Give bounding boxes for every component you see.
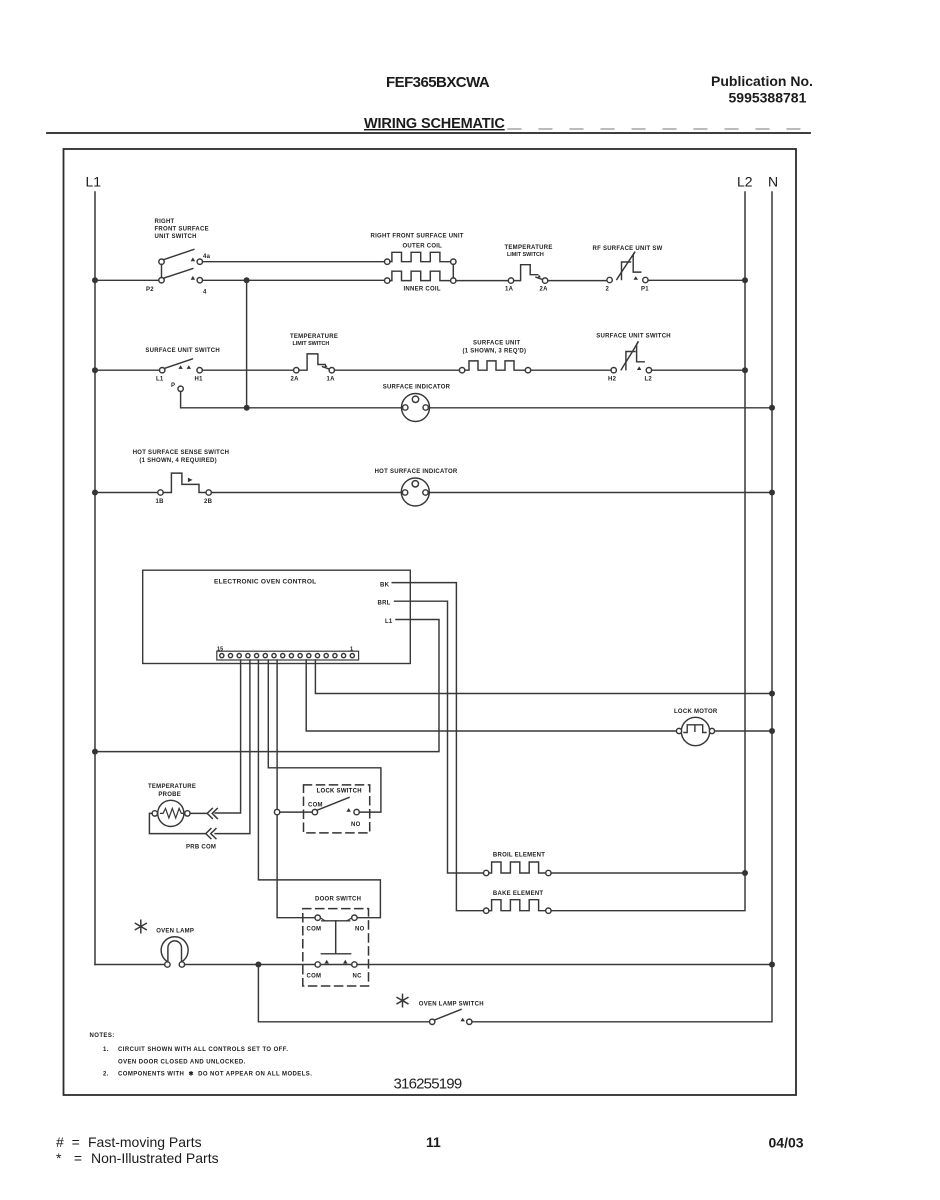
switch door switch lower contacts — [315, 960, 357, 967]
svg-text:11: 11 — [426, 1134, 441, 1150]
svg-text:BRL: BRL — [378, 601, 391, 607]
connector strip P1 — [217, 651, 359, 660]
svg-text:=: = — [74, 1150, 82, 1166]
wire 1A to surface unit coil — [335, 369, 460, 371]
svg-text:NOTES:: NOTES: — [90, 1033, 115, 1039]
wire probe right to chevron — [190, 812, 207, 814]
svg-text:NO: NO — [351, 822, 361, 828]
label: TEMPERATURE LIMIT SWITCH row2 — [290, 334, 338, 347]
svg-text:CIRCUIT SHOWN WITH ALL CONTROL: CIRCUIT SHOWN WITH ALL CONTROLS SET TO O… — [118, 1047, 288, 1053]
asterisk oven lamp — [135, 920, 146, 932]
svg-text:OUTER COIL: OUTER COIL — [403, 244, 443, 250]
svg-text:LOCK SWITCH: LOCK SWITCH — [317, 789, 362, 795]
label: SURFACE UNIT (1 SHOWN, 3 REQ'D) — [463, 341, 527, 355]
junction L1 row1 — [92, 277, 98, 283]
svg-text:316255199: 316255199 — [394, 1076, 462, 1093]
svg-text:ELECTRONIC OVEN CONTROL: ELECTRONIC OVEN CONTROL — [214, 579, 316, 586]
wire L1 to switch — [95, 369, 159, 371]
heater inner coil — [385, 271, 456, 283]
svg-text:BROIL ELEMENT: BROIL ELEMENT — [493, 853, 545, 859]
svg-text:HOT SURFACE INDICATOR: HOT SURFACE INDICATOR — [375, 469, 458, 475]
svg-text:COMPONENTS WITH ✱ DO NOT APP: COMPONENTS WITH ✱ DO NOT APPEAR ON ALL M… — [118, 1071, 312, 1078]
svg-text:TEMPERATURE: TEMPERATURE — [505, 245, 553, 251]
junction N indicator return — [769, 405, 775, 411]
wire L1 to 1B — [95, 492, 158, 494]
junction row1 dropper — [244, 277, 250, 283]
svg-text:RIGHT FRONT SURFACE UNIT: RIGHT FRONT SURFACE UNIT — [371, 234, 464, 240]
svg-text:Fast-moving Parts: Fast-moving Parts — [88, 1134, 202, 1150]
svg-text:BAKE ELEMENT: BAKE ELEMENT — [493, 891, 544, 897]
svg-text:1B: 1B — [156, 499, 165, 505]
footer: fast-moving parts legend — [56, 1134, 219, 1166]
label: RIGHT FRONT SURFACE UNIT SWITCH — [155, 219, 209, 240]
svg-text:4: 4 — [203, 290, 207, 296]
title dashed artifact line — [508, 128, 818, 130]
junction L1 row2 — [92, 367, 98, 373]
junction L2 row2 — [742, 367, 748, 373]
svg-text:LOCK MOTOR: LOCK MOTOR — [674, 709, 718, 715]
svg-text:COM: COM — [307, 974, 322, 980]
svg-text:2A: 2A — [540, 287, 549, 293]
label: TEMPERATURE LIMIT SWITCH row1 — [505, 245, 553, 258]
junction lamp switch branch — [255, 962, 261, 968]
svg-text:OVEN LAMP SWITCH: OVEN LAMP SWITCH — [419, 1002, 484, 1008]
svg-text:NO: NO — [355, 927, 365, 933]
wire pin5 to door switch NO — [258, 660, 380, 918]
asterisk oven lamp switch — [397, 994, 408, 1006]
indicator lamp surface indicator — [402, 394, 430, 422]
wire 4 to inner coil — [203, 279, 385, 281]
wire L1 bottom row to lamp — [95, 964, 165, 966]
wire pin7 to lock COM and door COM — [277, 660, 315, 918]
svg-text:1.: 1. — [103, 1047, 109, 1053]
svg-text:OVEN LAMP: OVEN LAMP — [156, 929, 194, 935]
svg-text:WIRING SCHEMATIC: WIRING SCHEMATIC — [364, 116, 505, 132]
junction indicator line / dropper — [244, 405, 250, 411]
wire BRL to broil element feed — [395, 601, 484, 873]
junction N bottom — [769, 962, 775, 968]
thermostat row2 — [294, 354, 335, 373]
wire joining coil right terminals — [452, 264, 454, 278]
svg-text:#: # — [56, 1134, 64, 1150]
svg-text:P1: P1 — [641, 287, 649, 293]
wire pin3 to probe chevron — [215, 660, 241, 813]
junction N lock motor — [769, 728, 775, 734]
heater outer coil — [385, 252, 456, 264]
switch door switch upper contacts — [315, 915, 357, 921]
junction L1 row3 — [92, 490, 98, 496]
svg-text:2B: 2B — [204, 499, 213, 505]
temperature probe (RTD) — [152, 800, 190, 826]
svg-text:PRB COM: PRB COM — [186, 845, 216, 851]
wire door NC to N — [357, 964, 772, 966]
wire pin10 to lock motor — [306, 660, 676, 731]
svg-text:L2: L2 — [737, 174, 753, 190]
lamp oven lamp — [161, 937, 188, 967]
svg-text:INNER COIL: INNER COIL — [404, 287, 441, 293]
svg-text:BK: BK — [380, 583, 390, 589]
chevron connector lower — [206, 829, 216, 839]
svg-text:SURFACE UNIT SWITCH: SURFACE UNIT SWITCH — [145, 348, 220, 354]
wire probe left loop to lower chevron — [149, 813, 205, 833]
schematic border frame — [64, 149, 797, 1095]
wire tap to lock COM — [280, 811, 312, 813]
svg-text:TEMPERATURE: TEMPERATURE — [290, 334, 338, 340]
wire lamp switch return to N — [472, 965, 772, 1022]
svg-text:FRONT SURFACE: FRONT SURFACE — [155, 227, 209, 233]
wire pin4 to probe common chevron — [215, 660, 250, 834]
wire pin11 to N — [315, 660, 772, 694]
svg-text:2: 2 — [606, 287, 610, 293]
svg-text:RIGHT: RIGHT — [155, 219, 175, 225]
svg-text:SURFACE UNIT SWITCH: SURFACE UNIT SWITCH — [596, 334, 671, 340]
electronic oven control box — [143, 570, 411, 663]
connector pin circles — [220, 654, 355, 658]
junction L2 broil — [742, 870, 748, 876]
svg-text:HOT SURFACE SENSE SWITCH: HOT SURFACE SENSE SWITCH — [133, 450, 230, 456]
heater broil element — [484, 862, 552, 876]
svg-text:P2: P2 — [146, 287, 154, 293]
door switch plunger — [321, 921, 350, 954]
svg-text:UNIT SWITCH: UNIT SWITCH — [155, 234, 197, 240]
wire BK to bake element feed — [392, 583, 483, 911]
header rule — [47, 132, 810, 134]
wire door COM to NC — [320, 964, 351, 966]
svg-text:15: 15 — [217, 647, 223, 653]
svg-text:4a: 4a — [203, 254, 211, 260]
junction N row3 — [769, 490, 775, 496]
svg-text:1A: 1A — [505, 287, 514, 293]
wire broil element to L2 — [551, 872, 745, 874]
svg-text:1: 1 — [350, 647, 353, 653]
svg-text:2A: 2A — [291, 377, 300, 383]
wire 4a to outer coil — [203, 261, 385, 263]
svg-text:N: N — [768, 174, 778, 190]
svg-text:FEF365BXCWA: FEF365BXCWA — [386, 74, 490, 91]
switch hot surface sense switch — [158, 473, 212, 495]
wire pin6 to lock switch NO — [268, 660, 381, 812]
svg-text:SURFACE UNIT: SURFACE UNIT — [473, 341, 521, 347]
junction L1 EOC feed — [92, 749, 98, 755]
svg-text:=: = — [72, 1134, 80, 1150]
svg-text:RF SURFACE UNIT SW: RF SURFACE UNIT SW — [593, 246, 663, 252]
chevron connector upper — [207, 808, 217, 818]
svg-text:5995388781: 5995388781 — [729, 90, 807, 106]
node lock COM tap — [274, 809, 279, 814]
notes text — [90, 1033, 313, 1078]
wire lock motor to N — [715, 730, 772, 732]
wire inner coil to 1A — [456, 280, 508, 282]
indicator lamp hot surface indicator — [401, 478, 429, 506]
wire H1 to thermostat 2A — [202, 369, 293, 371]
svg-text:(1 SHOWN, 4 REQUIRED): (1 SHOWN, 4 REQUIRED) — [139, 458, 216, 464]
wire P contact drop to indicator line — [181, 392, 244, 408]
junction L2 row1 — [742, 277, 748, 283]
switch surface unit switch row2-right (infinite switch) — [611, 342, 652, 373]
svg-text:H2: H2 — [608, 377, 617, 383]
wire 2A to RF switch — [548, 280, 607, 282]
svg-text:2.: 2. — [103, 1072, 109, 1078]
svg-text:Publication No.: Publication No. — [711, 73, 813, 89]
label: TEMPERATURE PROBE — [148, 784, 196, 798]
svg-text:COM: COM — [308, 803, 323, 809]
net N bus wire — [771, 192, 773, 965]
svg-text:L2: L2 — [645, 377, 653, 383]
svg-text:Non-Illustrated Parts: Non-Illustrated Parts — [91, 1150, 219, 1166]
svg-text:(1 SHOWN, 3 REQ'D): (1 SHOWN, 3 REQ'D) — [463, 349, 527, 355]
svg-text:H1: H1 — [195, 377, 204, 383]
label: HOT SURFACE SENSE SWITCH (1 SHOWN, 4 REQUIRED) — [133, 450, 230, 464]
heater surface unit coil — [459, 361, 530, 373]
wire lamp switch branch — [258, 965, 429, 1022]
svg-text:P: P — [171, 383, 175, 389]
switch SW1 (right front surface unit switch, DPST) — [159, 249, 203, 283]
wire lamp to door COM — [185, 964, 315, 966]
svg-text:PROBE: PROBE — [158, 792, 181, 798]
switch RF surface unit sw (infinite switch) — [607, 252, 648, 282]
switch lock switch — [312, 798, 359, 815]
svg-text:COM: COM — [307, 927, 322, 933]
wire L1 to switch P2 — [95, 279, 159, 281]
net L1 bus wire — [94, 192, 96, 965]
switch oven lamp switch — [430, 1010, 472, 1025]
svg-text:TEMPERATURE: TEMPERATURE — [148, 784, 196, 790]
junction N pin11 — [769, 691, 775, 697]
wire coil to H2 — [531, 369, 611, 371]
thermostat S2 row1 — [508, 265, 548, 284]
wire hot surface indicator to N — [429, 492, 772, 494]
lock switch dashed enclosure — [304, 785, 370, 833]
switch surface unit switch row2-left — [160, 359, 203, 392]
wire indicator to N — [428, 407, 772, 409]
svg-text:L1: L1 — [86, 174, 102, 190]
door switch dashed enclosure — [303, 909, 369, 986]
svg-text:*: * — [56, 1150, 62, 1166]
motor lock motor — [676, 717, 714, 745]
svg-text:DOOR SWITCH: DOOR SWITCH — [315, 897, 361, 903]
svg-text:NC: NC — [353, 974, 363, 980]
wire EOC L1 to L1 bus — [95, 620, 439, 752]
wire 2B to hot surface indicator — [211, 492, 402, 494]
svg-text:OVEN DOOR CLOSED AND UNLOCKED.: OVEN DOOR CLOSED AND UNLOCKED. — [118, 1060, 246, 1066]
svg-text:SURFACE INDICATOR: SURFACE INDICATOR — [383, 385, 451, 391]
wire to L2 bus — [652, 369, 745, 371]
svg-text:LIMIT SWITCH: LIMIT SWITCH — [293, 341, 330, 347]
label: RIGHT FRONT SURFACE UNIT OUTER COIL — [371, 234, 464, 250]
svg-text:L1: L1 — [156, 377, 164, 383]
svg-text:04/03: 04/03 — [769, 1135, 804, 1151]
heater bake element — [484, 900, 552, 914]
wire junction to indicator — [250, 407, 403, 409]
svg-text:1A: 1A — [327, 377, 336, 383]
svg-text:L1: L1 — [385, 619, 393, 625]
wire dropper row1 to indicator line — [246, 280, 248, 408]
net L2 bus wire — [744, 192, 746, 873]
svg-text:LIMIT SWITCH: LIMIT SWITCH — [507, 252, 544, 258]
wire bake element to L2 junction — [551, 873, 745, 911]
wire P1 to L2 — [648, 279, 745, 281]
